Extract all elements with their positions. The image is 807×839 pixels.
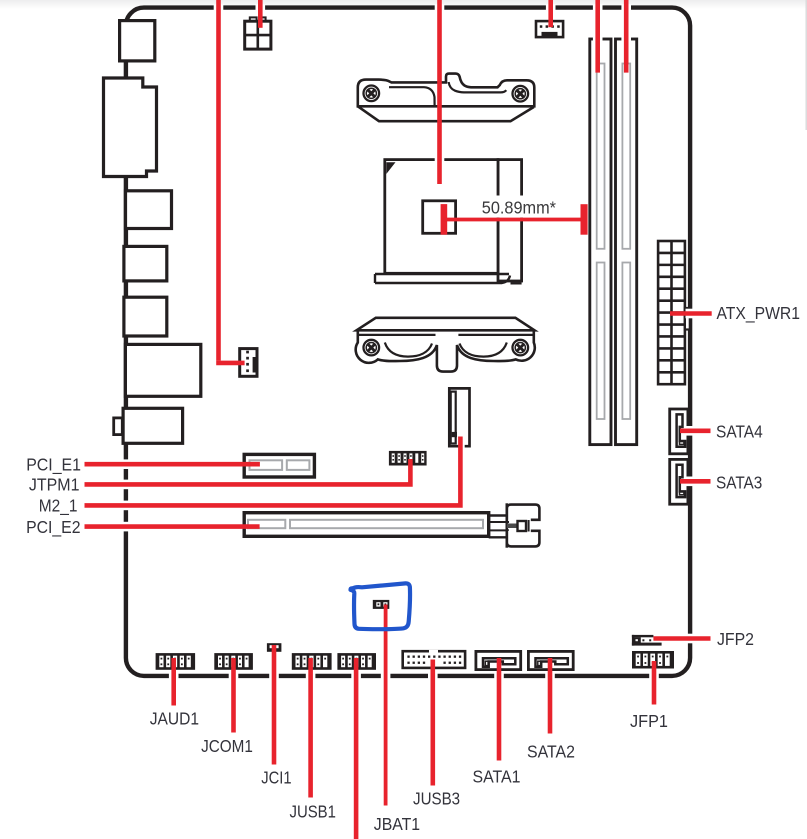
svg-text:ATX_PWR1: ATX_PWR1: [717, 303, 801, 324]
svg-text:SATA4: SATA4: [716, 422, 763, 442]
svg-text:JTPM1: JTPM1: [29, 475, 80, 495]
svg-text:JFP1: JFP1: [630, 711, 668, 731]
svg-text:JUSB1: JUSB1: [290, 801, 336, 821]
svg-text:SATA2: SATA2: [527, 741, 575, 761]
svg-text:PCI_E2: PCI_E2: [26, 517, 80, 538]
svg-text:SATA3: SATA3: [716, 472, 762, 492]
svg-text:JBAT1: JBAT1: [374, 814, 420, 834]
svg-text:JUSB3: JUSB3: [413, 789, 460, 809]
svg-text:JAUD1: JAUD1: [150, 709, 199, 729]
svg-text:JCI1: JCI1: [261, 768, 291, 788]
svg-text:PCI_E1: PCI_E1: [26, 454, 81, 475]
svg-text:SATA1: SATA1: [473, 767, 521, 787]
svg-text:50.89mm*: 50.89mm*: [482, 197, 556, 217]
svg-text:JCOM1: JCOM1: [201, 736, 253, 756]
svg-text:JFP2: JFP2: [717, 629, 754, 649]
svg-text:M2_1: M2_1: [39, 496, 78, 517]
